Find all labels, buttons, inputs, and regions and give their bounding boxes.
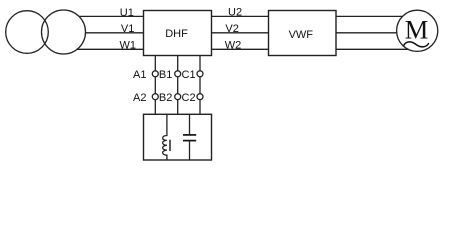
svg-text:M: M <box>405 15 429 45</box>
svg-text:V1: V1 <box>121 23 134 35</box>
svg-text:C1: C1 <box>182 69 196 81</box>
svg-text:A2: A2 <box>133 92 146 104</box>
svg-text:U2: U2 <box>228 6 242 18</box>
svg-text:U1: U1 <box>120 7 134 19</box>
svg-text:V2: V2 <box>225 23 238 35</box>
svg-text:C2: C2 <box>182 92 196 104</box>
svg-text:W1: W1 <box>120 40 137 52</box>
svg-text:B1: B1 <box>159 69 172 81</box>
svg-text:W2: W2 <box>225 40 242 52</box>
svg-text:VWF: VWF <box>289 29 314 41</box>
svg-text:B2: B2 <box>159 92 172 104</box>
svg-text:A1: A1 <box>133 69 146 81</box>
svg-text:DHF: DHF <box>165 28 188 40</box>
